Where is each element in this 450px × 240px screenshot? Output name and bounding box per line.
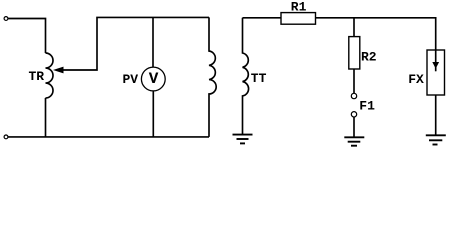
terminal X2 (bottom left input) [4,135,8,139]
terminal X1 (top left input) [4,17,8,21]
wire PV stem top [152,17,154,67]
svg-text:PV: PV [123,72,139,87]
arrester FX arrow head [432,62,439,69]
primary winding (right side of PV loop) [209,17,216,136]
svg-text:F1: F1 [359,98,375,113]
autotransformer TR winding [46,53,54,98]
ground (below FX) [426,135,446,144]
wire PV stem bottom [152,91,154,137]
arrester FX arrow shaft [435,50,437,71]
wire TT top to R1 [243,17,282,19]
wire top-left input to TR [8,19,46,54]
transformer TT winding [243,18,249,134]
wire R1 to FX corner [316,18,436,50]
TR wiper arrow head [53,67,64,74]
wire TR bottom to bottom rail [45,98,47,137]
ground (below TT) [233,135,253,144]
wire junction to R2 [353,18,355,37]
wire TR wiper to top rail [63,17,209,70]
wire F1 to ground [353,117,355,137]
svg-text:FX: FX [408,72,424,87]
svg-text:R1: R1 [291,0,307,14]
arrester FX body [427,50,445,95]
sphere gap F1 (upper ball) [351,93,356,98]
voltmeter PV circle [141,67,165,91]
svg-text:TR: TR [29,69,45,84]
resistor R2 [349,37,360,69]
svg-text:TT: TT [251,71,267,86]
wire bottom rail [8,136,209,138]
resistor R1 [281,13,316,25]
svg-text:V: V [149,70,159,88]
wire R2 to F1 [353,69,355,93]
svg-text:R2: R2 [361,50,377,65]
wire FX to ground [435,95,437,135]
sphere gap F1 (lower ball) [351,112,356,117]
ground (below F1) [344,137,364,145]
